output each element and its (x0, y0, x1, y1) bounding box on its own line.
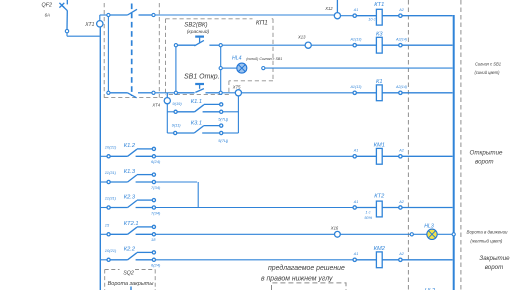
svg-text:HL3: HL3 (424, 224, 434, 230)
wire XT1 stem up (99, 15, 101, 21)
svg-text:КП1: КП1 (256, 20, 268, 27)
svg-text:SB1 Откр.: SB1 Откр. (184, 73, 220, 80)
svg-text:9(11): 9(11) (172, 122, 182, 127)
wire XT1 to junction (100, 14, 107, 16)
svg-text:ворот: ворот (485, 264, 504, 271)
contact K1.2 (107, 147, 155, 158)
svg-text:(желтый цвет): (желтый цвет) (470, 239, 503, 244)
wire rail stub К1.3 (101, 181, 107, 183)
mechanical link of QS blades (blue dashed) (131, 4, 133, 97)
svg-text:К2.2: К2.2 (124, 247, 136, 253)
wire row2 to X13 (222, 44, 305, 46)
breaker QF2 (42, 0, 68, 30)
dashed separator right (460, 0, 462, 290)
svg-text:А2: А2 (398, 149, 404, 153)
svg-text:ХТ1: ХТ1 (84, 22, 94, 28)
svg-text:А1: А1 (353, 8, 359, 12)
svg-text:Х13: Х13 (297, 35, 306, 40)
dashed separator column (407, 0, 409, 290)
svg-text:Открытие: Открытие (470, 150, 503, 157)
terminal XT4 (151, 93, 170, 108)
svg-text:в правом нижнем углу: в правом нижнем углу (261, 275, 333, 282)
svg-text:КТ2: КТ2 (374, 194, 385, 200)
wire K2.3 to KT2 (156, 207, 354, 209)
svg-text:10 с: 10 с (368, 17, 375, 22)
node row1 (152, 13, 155, 16)
wire X16 to HL3 (340, 233, 410, 235)
svg-text:1 с: 1 с (365, 209, 370, 214)
wire K1.3 out (156, 181, 198, 183)
terminal X13 (297, 35, 311, 49)
svg-text:7(34): 7(34) (151, 210, 161, 215)
wire KT2.1 out (156, 233, 335, 235)
node HL4 left (219, 67, 222, 70)
svg-text:HL4: HL4 (232, 56, 242, 62)
wire row4 to K1 (241, 92, 353, 94)
node SB1 left (174, 91, 177, 94)
svg-text:6(24): 6(24) (151, 159, 161, 164)
svg-text:предлагаемое решение: предлагаемое решение (268, 264, 345, 272)
lamp HL4 (blue, signal from SB1) (232, 56, 282, 74)
svg-text:5(7Ц): 5(7Ц) (218, 117, 229, 122)
node HL3 at rail (452, 233, 455, 236)
switch QS blade 1 (110, 9, 152, 15)
svg-text:Х16: Х16 (330, 226, 339, 231)
node HL3 left (410, 233, 413, 236)
svg-text:9(19): 9(19) (172, 101, 182, 106)
wire QF2 to rail (66, 33, 68, 36)
wire SB1 to XT5 (222, 92, 235, 94)
svg-text:К3: К3 (376, 31, 383, 37)
wire rail stub К1.2 (101, 155, 107, 157)
svg-text:К3.1: К3.1 (191, 121, 202, 127)
svg-text:А1(13): А1(13) (349, 85, 362, 89)
terminal XT5 (232, 84, 242, 96)
svg-text:КМ2: КМ2 (374, 246, 386, 252)
wire to HL3 (413, 233, 426, 235)
wire X13 to K3 (311, 44, 353, 46)
wire K3.1 to drop (223, 132, 239, 134)
terminal X16 (330, 226, 341, 238)
svg-text:6(24): 6(24) (151, 263, 161, 268)
contact K2.2 (107, 251, 155, 262)
limit switch SQ2 (cut off) (130, 287, 132, 290)
svg-text:(красный): (красный) (187, 28, 210, 35)
enclosure box KP1 (dashed) (166, 19, 274, 96)
svg-text:10(21): 10(21) (105, 145, 117, 150)
svg-text:(синий цвет): (синий цвет) (474, 70, 500, 75)
svg-text:Х12: Х12 (324, 6, 333, 11)
wire HL3 to rail (437, 233, 452, 235)
contact KT2.1 (107, 225, 155, 236)
terminal XT1 (84, 21, 103, 29)
svg-text:5(7Ц): 5(7Ц) (218, 138, 229, 143)
contactor coil KM2 (353, 246, 453, 268)
svg-text:А2: А2 (398, 8, 404, 12)
svg-text:(синий) Сигнал с SB1: (синий) Сигнал с SB1 (246, 57, 282, 61)
pushbutton SB1 Open (NO) (178, 73, 220, 93)
svg-text:XT5: XT5 (232, 84, 241, 89)
node SB1 right (219, 91, 222, 94)
svg-text:Закрытие: Закрытие (479, 255, 510, 262)
wire HL4 branch vertical (220, 47, 222, 91)
svg-text:К1.1: К1.1 (191, 99, 202, 105)
timer relay coil KT1 (353, 2, 453, 25)
switch QS blade 2 (110, 93, 152, 98)
svg-text:18: 18 (151, 237, 156, 242)
svg-text:К1.3: К1.3 (124, 169, 136, 175)
wire K1.1 to drop (223, 111, 239, 113)
contactor coil KM1 (353, 142, 453, 164)
wire XT5 drop (237, 96, 239, 133)
contact K2.3 (107, 199, 155, 210)
node feed junction (107, 13, 110, 16)
wire row3 to rail (265, 67, 453, 69)
svg-text:КТ2.1: КТ2.1 (124, 221, 139, 227)
wire XT4 drop (166, 104, 168, 133)
relay coil K3 (349, 31, 452, 53)
node SB2 right / HL4 branch (219, 44, 222, 47)
svg-text:6А: 6А (45, 13, 50, 18)
svg-text:SB2(ВК): SB2(ВК) (184, 22, 207, 29)
svg-text:Сигнал с SB1: Сигнал с SB1 (475, 61, 501, 66)
node HL4 right (262, 67, 265, 70)
svg-text:А1: А1 (353, 149, 359, 153)
svg-text:15: 15 (105, 223, 110, 228)
svg-text:SQ2: SQ2 (123, 270, 134, 276)
wire branch K3.1 (167, 132, 173, 134)
svg-text:7(34): 7(34) (151, 185, 161, 190)
left power rail (99, 27, 101, 290)
svg-text:Ворота закрыты: Ворота закрыты (108, 281, 154, 287)
wire to left rail (67, 35, 100, 37)
note box (dashed) (272, 283, 347, 290)
svg-text:10(21): 10(21) (105, 248, 117, 253)
wire rail stub К2.2 (101, 259, 107, 261)
terminal X12 (324, 0, 340, 19)
svg-text:К1.2: К1.2 (124, 143, 136, 149)
right power rail N (453, 15, 455, 290)
svg-text:А2(14): А2(14) (395, 38, 408, 42)
svg-text:К1: К1 (376, 79, 383, 85)
svg-text:А1: А1 (353, 252, 359, 256)
lamp HL3 (yellow, gates moving) (424, 224, 437, 240)
wire K1.3 down to K2.3 (197, 182, 199, 208)
wire K2.2 to KM2 (156, 259, 354, 261)
svg-text:ворот: ворот (475, 158, 494, 165)
contact K3.1 (174, 124, 223, 135)
wire feed drop (107, 17, 109, 92)
pushbutton SB2 (NC, red) (178, 22, 220, 46)
node SB2 left (174, 44, 177, 47)
wire K1.2 to KM1 (156, 155, 354, 157)
contact K1.1 (174, 103, 223, 114)
timer relay coil KT2 (353, 194, 453, 221)
svg-text:А1(13): А1(13) (349, 38, 362, 42)
node row4 mid (152, 91, 155, 94)
svg-text:А2(14): А2(14) (395, 85, 408, 89)
svg-text:КТ1: КТ1 (374, 2, 384, 8)
enclosure SQ2 (dashed) (105, 270, 156, 290)
svg-text:А2: А2 (398, 200, 404, 204)
svg-text:50%: 50% (364, 215, 372, 220)
wire row4 into KP1 (155, 92, 174, 94)
svg-text:11(31): 11(31) (105, 196, 117, 201)
svg-text:А2: А2 (398, 252, 404, 256)
wire X12 to KT1 (340, 15, 353, 17)
contact K1.3 (107, 173, 155, 184)
relay coil K1 (349, 79, 452, 101)
wire branch K1.1 (167, 111, 174, 113)
svg-text:К2.3: К2.3 (124, 194, 136, 200)
svg-text:КМ1: КМ1 (374, 142, 385, 148)
wire rail stub К2.3 (101, 207, 107, 209)
enclosure box QS switch (dashed) (104, 3, 163, 98)
node QF2 lower terminal (65, 29, 68, 32)
wire rail stub КТ2.1 (101, 233, 107, 235)
wire SB feed vertical (175, 47, 177, 91)
node row4 left (107, 91, 110, 94)
svg-text:11(31): 11(31) (105, 170, 117, 175)
wire row1 to X12 (155, 14, 334, 16)
svg-text:XT4: XT4 (151, 103, 160, 108)
svg-text:Ворота в движении: Ворота в движении (467, 230, 509, 235)
svg-text:QF2: QF2 (42, 3, 52, 9)
svg-text:А1: А1 (353, 200, 359, 204)
wire to HL4 (222, 67, 236, 69)
